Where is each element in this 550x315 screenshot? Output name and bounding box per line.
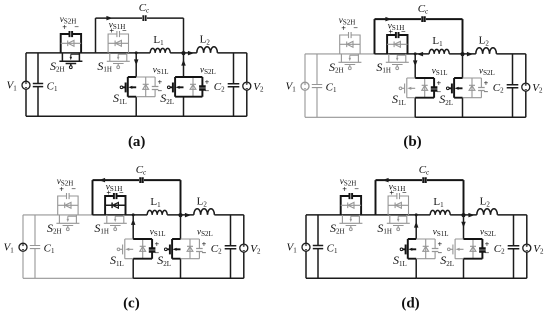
capacitor C1 (d) bbox=[313, 215, 323, 278]
switch S1L body diode (c) bbox=[140, 239, 146, 259]
wire bottom rail left (b) bbox=[305, 116, 415, 118]
switch S1H MOSFET (b) bbox=[386, 54, 409, 67]
switch S2L body diode (c) bbox=[187, 239, 193, 259]
current arrow 4 (d) bbox=[461, 222, 466, 228]
switch S1L MOSFET (c) bbox=[120, 239, 134, 259]
svg-text:C2: C2 bbox=[211, 243, 222, 256]
switch S1L MOSFET (d) bbox=[403, 239, 417, 259]
svg-text:vS2L: vS2L bbox=[479, 66, 495, 78]
wire S2L drain (b) bbox=[462, 54, 464, 78]
voltage source V2 (d) bbox=[523, 244, 531, 252]
wire Cc top branch right (d) bbox=[427, 179, 464, 181]
wire S1L source (c) bbox=[132, 259, 134, 279]
current arrow 2 (a) bbox=[188, 51, 194, 56]
wire right vertical (c) bbox=[243, 215, 245, 278]
svg-text:S2L: S2L bbox=[440, 253, 454, 268]
svg-text:C1: C1 bbox=[47, 81, 58, 94]
switch S1L body diode (b) bbox=[422, 78, 428, 98]
svg-text:vS2L: vS2L bbox=[197, 227, 213, 239]
svg-text:V1: V1 bbox=[7, 80, 18, 93]
switch S2H snubber capacitor branch (d) bbox=[341, 193, 361, 215]
svg-text:L2: L2 bbox=[200, 34, 211, 47]
node L1-L2-Cc junction (a) bbox=[181, 51, 185, 55]
wire left vertical (a) bbox=[25, 53, 27, 116]
svg-text:+: + bbox=[109, 26, 114, 35]
svg-text:S1L: S1L bbox=[110, 253, 124, 268]
current arrow 1 (a) bbox=[106, 16, 112, 21]
switch S1L snubber capacitor (b) bbox=[415, 78, 434, 98]
subfigure (a) bbox=[7, 2, 265, 116]
switch S2H MOSFET (a) bbox=[59, 53, 82, 66]
switch S2H body diode (a) bbox=[61, 41, 81, 47]
current arrow 2 (c) bbox=[185, 213, 191, 218]
capacitor C1 (b) bbox=[312, 54, 322, 117]
switch S1H snubber capacitor branch (b) bbox=[387, 32, 407, 54]
inductor L1 (d) bbox=[430, 210, 450, 215]
svg-text:L1: L1 bbox=[150, 196, 161, 209]
wire Cc tap vertical (a) bbox=[95, 18, 97, 53]
wire Cc top branch right (c) bbox=[144, 179, 181, 181]
switch S2L snubber capacitor (a) bbox=[184, 77, 203, 97]
capacitor C2 (d) bbox=[508, 215, 520, 278]
wire top-left rail (d) bbox=[306, 214, 376, 216]
switch S1L snubber capacitor (a) bbox=[136, 77, 155, 97]
svg-text:S2L: S2L bbox=[160, 91, 174, 106]
switch S1H body diode (c) bbox=[105, 203, 125, 209]
wire S2L drain (a) bbox=[183, 53, 185, 77]
svg-text:V2: V2 bbox=[532, 82, 543, 95]
wire Cc tap vertical (d) bbox=[375, 180, 377, 215]
capacitor C1 (a) bbox=[33, 53, 43, 116]
switch S2L body diode (a) bbox=[190, 77, 196, 97]
capacitor Cc (c) bbox=[140, 177, 142, 183]
inductor L2 (a) bbox=[197, 47, 218, 53]
wire bottom rail right (c) bbox=[133, 277, 244, 279]
svg-text:−: − bbox=[402, 188, 407, 197]
wire S2L drain (c) bbox=[180, 215, 182, 239]
svg-text:+: + bbox=[388, 27, 393, 36]
inductor L2 (c) bbox=[194, 209, 215, 215]
svg-text:+: + bbox=[59, 185, 64, 194]
current arrow 2 (d) bbox=[468, 213, 474, 218]
wire Cc tap vertical (b) bbox=[374, 19, 376, 54]
node S1L drain tap (b) bbox=[414, 52, 417, 55]
wire S1L drain (d) bbox=[415, 215, 417, 239]
svg-text:V1: V1 bbox=[4, 242, 15, 255]
current arrow 4 (b) bbox=[413, 60, 418, 66]
wire bottom rail left (a) bbox=[26, 115, 136, 117]
switch S2L body diode (b) bbox=[469, 78, 475, 98]
wire Cc top branch right (b) bbox=[426, 18, 463, 20]
svg-text:Cc: Cc bbox=[418, 3, 429, 16]
switch S2L snubber capacitor (c) bbox=[181, 239, 200, 259]
switch S1H body diode (d) bbox=[388, 203, 408, 209]
switch S1L MOSFET (b) bbox=[402, 78, 416, 98]
current arrow 3 (a) bbox=[134, 59, 139, 65]
current arrow 2 (b) bbox=[467, 52, 473, 57]
switch S2H MOSFET (d) bbox=[339, 215, 362, 228]
svg-text:Cc: Cc bbox=[136, 164, 147, 177]
switch S1L body diode (a) bbox=[143, 77, 149, 97]
svg-text:Cc: Cc bbox=[419, 164, 430, 177]
svg-text:V2: V2 bbox=[533, 243, 544, 256]
switch S1H snubber capacitor branch (d) bbox=[388, 193, 408, 215]
wire junction to L2 (d) bbox=[464, 214, 527, 216]
wire Cc descent (b) bbox=[462, 19, 464, 54]
capacitor C2 (c) bbox=[225, 215, 237, 278]
svg-text:Cc: Cc bbox=[139, 2, 150, 15]
switch S2H body diode (b) bbox=[340, 42, 360, 48]
wire right vertical (a) bbox=[246, 53, 248, 116]
node S1L drain tap (c) bbox=[132, 213, 135, 216]
svg-text:+: + bbox=[342, 185, 347, 194]
svg-text:vS2L: vS2L bbox=[480, 227, 496, 239]
svg-text:V2: V2 bbox=[250, 243, 261, 256]
svg-text:(b): (b) bbox=[403, 134, 421, 150]
svg-text:L2: L2 bbox=[479, 35, 490, 48]
wire left vertical (c) bbox=[22, 215, 24, 278]
switch S1H MOSFET (a) bbox=[107, 53, 130, 66]
current arrow 3 (b) bbox=[417, 52, 423, 57]
wire S1L drain (c) bbox=[132, 215, 134, 239]
node L1-L2-Cc junction (d) bbox=[461, 213, 465, 217]
inductor L1 (c) bbox=[147, 210, 167, 215]
svg-text:S2L: S2L bbox=[157, 253, 171, 268]
wire junction to L2 (a) bbox=[184, 52, 247, 54]
svg-text:+: + bbox=[389, 188, 394, 197]
svg-text:−: − bbox=[74, 23, 79, 32]
wire bottom rail right (a) bbox=[136, 115, 247, 117]
wire junction to L2 (b) bbox=[463, 53, 526, 55]
capacitor C1 (c) bbox=[30, 215, 40, 278]
inductor L2 (b) bbox=[476, 48, 497, 54]
svg-text:(d): (d) bbox=[401, 295, 419, 311]
wire mid rail (d) bbox=[376, 214, 464, 216]
svg-text:S1L: S1L bbox=[392, 92, 406, 107]
svg-text:vS1L: vS1L bbox=[150, 227, 166, 239]
wire S2L source (a) bbox=[183, 97, 185, 117]
voltage source V2 (a) bbox=[243, 82, 251, 90]
svg-text:−: − bbox=[119, 188, 124, 197]
switch S2L body diode (d) bbox=[470, 239, 476, 259]
svg-text:L1: L1 bbox=[153, 34, 164, 47]
voltage source V1 (a) bbox=[22, 81, 30, 89]
svg-text:−: − bbox=[353, 24, 358, 33]
node L1-L2-Cc junction (c) bbox=[178, 213, 182, 217]
voltage source V2 (c) bbox=[240, 244, 248, 252]
switch S1L MOSFET (a) bbox=[123, 77, 137, 97]
voltage source V1 (d) bbox=[302, 243, 310, 251]
wire top-left rail (c) bbox=[23, 214, 93, 216]
wire top-left rail (b) bbox=[305, 53, 375, 55]
wire mid rail (a) bbox=[96, 52, 184, 54]
svg-text:−: − bbox=[202, 248, 207, 257]
svg-text:S2L: S2L bbox=[439, 92, 453, 107]
svg-text:L1: L1 bbox=[433, 196, 444, 209]
svg-text:C1: C1 bbox=[326, 82, 337, 95]
wire top-left rail (a) bbox=[26, 52, 96, 54]
svg-text:+: + bbox=[341, 24, 346, 33]
wire Cc descent (c) bbox=[180, 180, 182, 215]
switch S1L snubber capacitor (d) bbox=[416, 239, 435, 259]
switch S1H body diode (b) bbox=[387, 42, 407, 48]
svg-text:L2: L2 bbox=[197, 196, 208, 209]
wire right vertical (b) bbox=[525, 54, 527, 117]
svg-text:V1: V1 bbox=[286, 81, 297, 94]
wire S1L source (b) bbox=[414, 98, 416, 118]
svg-text:C1: C1 bbox=[327, 243, 338, 256]
wire Cc top branch left (c) bbox=[93, 179, 140, 181]
svg-text:vS2L: vS2L bbox=[200, 65, 216, 77]
svg-text:C1: C1 bbox=[44, 243, 55, 256]
switch S2L MOSFET (d) bbox=[450, 239, 464, 259]
svg-text:vS1L: vS1L bbox=[153, 65, 169, 77]
wire Cc top branch left (b) bbox=[375, 18, 422, 20]
node S1L drain tap (d) bbox=[415, 213, 418, 216]
svg-text:−: − bbox=[484, 87, 489, 96]
inductor L1 (b) bbox=[429, 49, 449, 54]
inductor L1 (a) bbox=[150, 48, 170, 53]
wire S1L source (a) bbox=[135, 97, 137, 117]
wire S1L drain (b) bbox=[414, 54, 416, 78]
svg-text:L1: L1 bbox=[432, 35, 443, 48]
switch S1H snubber capacitor branch (a) bbox=[108, 31, 128, 53]
wire bottom rail right (b) bbox=[415, 116, 526, 118]
svg-text:−: − bbox=[485, 248, 490, 257]
svg-text:(c): (c) bbox=[123, 296, 140, 312]
switch S1H MOSFET (d) bbox=[387, 215, 410, 228]
svg-text:−: − bbox=[205, 86, 210, 95]
svg-text:−: − bbox=[401, 27, 406, 36]
switch S1H snubber capacitor branch (c) bbox=[105, 193, 125, 215]
current arrow 1 (d) bbox=[382, 178, 388, 183]
wire Cc tap vertical (c) bbox=[92, 180, 94, 215]
svg-text:(a): (a) bbox=[128, 134, 146, 150]
svg-text:C2: C2 bbox=[493, 82, 504, 95]
svg-text:vS1L: vS1L bbox=[433, 227, 449, 239]
svg-text:−: − bbox=[71, 185, 76, 194]
switch S2L MOSFET (a) bbox=[170, 77, 184, 97]
svg-text:L2: L2 bbox=[480, 196, 491, 209]
svg-text:−: − bbox=[122, 26, 127, 35]
capacitor Cc (a) bbox=[143, 15, 145, 21]
switch S2H body diode (d) bbox=[341, 203, 361, 209]
current arrow 3 (c) bbox=[131, 219, 136, 225]
subfigure (d) bbox=[287, 164, 545, 278]
wire S2L source (c) bbox=[180, 259, 182, 279]
wire S1L drain (a) bbox=[135, 53, 137, 77]
current arrow 4 (a) bbox=[181, 59, 186, 65]
wire bottom rail left (c) bbox=[23, 277, 133, 279]
node S1L drain tap (a) bbox=[135, 51, 138, 54]
switch S1L snubber capacitor (c) bbox=[133, 239, 152, 259]
wire Cc top branch right (a) bbox=[147, 17, 184, 19]
voltage source V1 (b) bbox=[301, 82, 309, 90]
wire mid rail (b) bbox=[375, 53, 463, 55]
svg-text:+: + bbox=[62, 23, 67, 32]
capacitor C2 (b) bbox=[507, 54, 519, 117]
wire S1L source (d) bbox=[415, 259, 417, 279]
wire Cc descent (a) bbox=[183, 18, 185, 53]
voltage source V2 (b) bbox=[522, 83, 530, 91]
svg-text:vS1L: vS1L bbox=[432, 66, 448, 78]
switch S2H MOSFET (b) bbox=[338, 54, 361, 67]
wire left vertical (b) bbox=[304, 54, 306, 117]
wire Cc top branch left (a) bbox=[96, 17, 143, 19]
wire Cc top branch left (d) bbox=[376, 179, 423, 181]
switch S2L MOSFET (c) bbox=[167, 239, 181, 259]
svg-text:V2: V2 bbox=[253, 81, 264, 94]
switch S1H MOSFET (c) bbox=[104, 215, 127, 228]
wire S2L source (d) bbox=[463, 259, 465, 279]
wire left vertical (d) bbox=[305, 215, 307, 278]
switch S2H snubber capacitor branch (b) bbox=[340, 32, 360, 54]
current arrow 1 (c) bbox=[99, 178, 105, 183]
wire S2L source (b) bbox=[462, 98, 464, 118]
svg-text:S1L: S1L bbox=[393, 253, 407, 268]
inductor L2 (d) bbox=[477, 209, 498, 215]
svg-text:+: + bbox=[106, 188, 111, 197]
switch S2L snubber capacitor (d) bbox=[464, 239, 483, 259]
switch S2L snubber capacitor (b) bbox=[463, 78, 482, 98]
switch S2H body diode (c) bbox=[58, 203, 78, 209]
wire mid rail (c) bbox=[93, 214, 181, 216]
capacitor C2 (a) bbox=[228, 53, 240, 116]
svg-text:C2: C2 bbox=[494, 243, 505, 256]
node L1-L2-Cc junction (b) bbox=[460, 52, 464, 56]
capacitor Cc (b) bbox=[422, 16, 424, 22]
svg-text:−: − bbox=[354, 185, 359, 194]
switch S1L body diode (d) bbox=[423, 239, 429, 259]
svg-text:C2: C2 bbox=[214, 81, 225, 94]
current arrow 1 (b) bbox=[385, 17, 391, 22]
subfigure (c) bbox=[4, 164, 262, 278]
switch S2H snubber capacitor branch (a) bbox=[61, 31, 81, 53]
wire junction to L2 (c) bbox=[181, 214, 244, 216]
subfigure (b) bbox=[286, 3, 544, 117]
wire S2L drain (d) bbox=[463, 215, 465, 239]
voltage source V1 (c) bbox=[19, 243, 27, 251]
switch S2H snubber capacitor branch (c) bbox=[58, 193, 78, 215]
wire bottom rail right (d) bbox=[416, 277, 527, 279]
svg-text:S1L: S1L bbox=[113, 91, 127, 106]
switch S1H body diode (a) bbox=[108, 41, 128, 47]
svg-text:V1: V1 bbox=[287, 242, 298, 255]
current arrow 3 (d) bbox=[414, 221, 419, 227]
wire bottom rail left (d) bbox=[306, 277, 416, 279]
wire right vertical (d) bbox=[526, 215, 528, 278]
switch S2L MOSFET (b) bbox=[449, 78, 463, 98]
capacitor Cc (d) bbox=[423, 177, 425, 183]
switch S2H MOSFET (c) bbox=[56, 215, 79, 228]
wire Cc descent (d) bbox=[463, 180, 465, 215]
